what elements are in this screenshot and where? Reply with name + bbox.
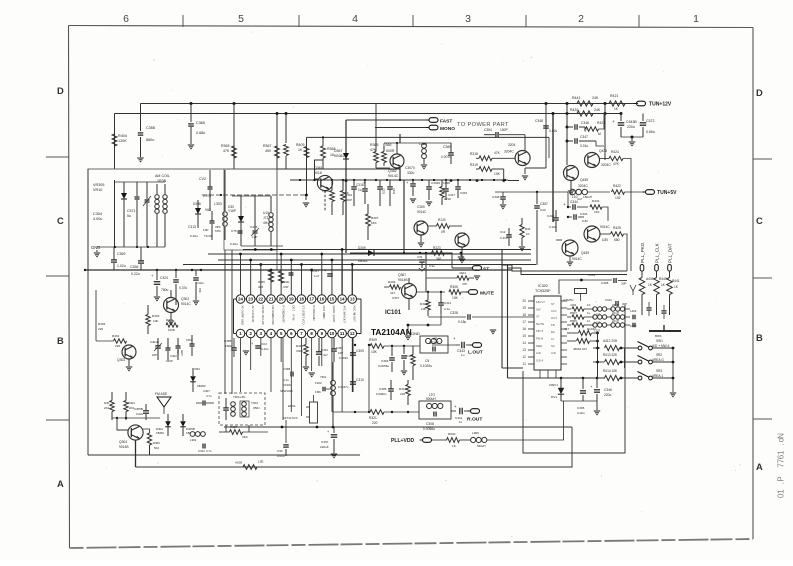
svg-text:C30: C30 [277,449,283,453]
svg-text:KB362: KB362 [156,431,164,435]
svg-text:P: P [777,476,786,481]
svg-text:DET: DET [292,306,296,312]
svg-text:IC101: IC101 [385,310,402,316]
svg-text:C328: C328 [450,311,458,315]
svg-text:0.8u: 0.8u [582,219,588,223]
svg-text:PLL+VDD: PLL+VDD [391,438,414,444]
svg-text:18: 18 [522,313,526,317]
svg-text:0.22u: 0.22u [131,272,140,276]
svg-text:3204C: 3204C [578,184,588,188]
svg-text:C328: C328 [601,281,609,285]
svg-text:Q303: Q303 [117,358,125,362]
svg-text:R34: R34 [525,227,531,231]
svg-text:0.68u: 0.68u [196,131,205,135]
svg-text:860u: 860u [146,138,154,142]
svg-text:9016: 9016 [314,171,322,175]
svg-text:R432: R432 [570,108,578,112]
svg-text:KB362: KB362 [334,154,345,158]
svg-text:RLY: RLY [176,350,179,355]
svg-text:Q439: Q439 [581,251,589,255]
svg-text:IC302: IC302 [538,284,548,288]
svg-text:FM ASE: FM ASE [155,392,168,396]
svg-text:9014C: 9014C [181,302,191,306]
svg-text:CC2: CC2 [261,342,267,346]
svg-text:C349: C349 [547,214,555,218]
svg-text:2K4: 2K4 [594,210,600,214]
svg-text:MED: MED [536,344,542,348]
svg-text:R424: R424 [611,150,619,154]
svg-text:N-OUT: N-OUT [342,315,346,324]
svg-text:9014B: 9014B [119,445,129,449]
svg-text:C358: C358 [146,126,155,130]
svg-text:U10: U10 [263,211,269,215]
svg-text:C307: C307 [203,389,210,393]
svg-text:13P: 13P [203,228,208,232]
svg-text:19: 19 [289,297,294,302]
svg-text:AREA 1: AREA 1 [652,374,663,378]
svg-text:AF Vcc: AF Vcc [251,306,255,315]
svg-text:R309: R309 [388,280,396,284]
svg-text:9014C: 9014C [388,174,399,178]
svg-text:R303: R303 [152,314,160,318]
svg-text:VR10: VR10 [93,188,102,192]
svg-text:C301B: C301B [150,340,159,344]
svg-text:SW: SW [536,307,541,311]
svg-text:A412 20H: A412 20H [603,339,618,343]
svg-text:NC: NC [551,344,555,348]
svg-text:1K: 1K [526,232,530,236]
svg-text:R305: R305 [450,285,458,289]
svg-text:R413 22K: R413 22K [603,353,618,357]
svg-text:Y16P: Y16P [228,209,237,213]
svg-text:11: 11 [523,362,527,366]
svg-text:R507: R507 [570,311,577,315]
svg-text:0.40u: 0.40u [230,242,238,246]
svg-text:TC9325F: TC9325F [535,289,551,293]
svg-text:GND: GND [411,331,420,336]
svg-text:BA: BA [551,330,555,334]
svg-text:21: 21 [269,297,274,302]
svg-text:C343B: C343B [626,120,637,124]
svg-text:C348: C348 [492,195,500,199]
svg-text:760u: 760u [161,288,169,292]
svg-text:L906: L906 [472,431,479,435]
svg-text:FB+V7: FB+V7 [536,300,545,304]
svg-text:7: 7 [777,463,786,468]
svg-text:C324: C324 [392,188,395,195]
svg-text:45V: 45V [265,149,272,153]
svg-text:R440: R440 [659,277,667,281]
svg-text:R425: R425 [613,226,621,230]
svg-text:FM6: FM6 [315,390,321,394]
svg-text:100P: 100P [500,128,509,132]
svg-text:C371: C371 [127,209,135,213]
svg-text:R442: R442 [592,199,600,203]
svg-text:12: 12 [350,331,355,336]
svg-text:0: 0 [777,493,786,498]
svg-text:AM LOC: AM LOC [261,315,265,325]
svg-text:13P: 13P [252,235,257,239]
svg-text:C346: C346 [604,388,612,392]
svg-text:C343: C343 [580,212,588,216]
svg-text:15: 15 [330,297,335,302]
svg-text:100R: 100R [168,328,175,332]
svg-text:AM COIL: AM COIL [155,174,170,178]
svg-text:R506: R506 [570,319,577,323]
svg-text:C356: C356 [130,265,138,269]
svg-text:V63: V63 [205,208,211,212]
svg-text:13: 13 [522,348,526,352]
svg-text:C372: C372 [646,119,654,123]
svg-text:C305: C305 [577,406,585,410]
svg-text:MUTE: MUTE [480,290,495,296]
svg-text:IF RCC: IF RCC [312,306,316,315]
svg-text:SW1: SW1 [656,339,663,343]
svg-text:+: + [251,342,253,346]
svg-text:A000: A000 [235,461,242,465]
svg-text:17: 17 [522,320,526,324]
svg-text:4324: 4324 [459,271,466,275]
svg-text:C347: C347 [580,135,588,139]
svg-text:14: 14 [522,341,526,345]
svg-text:C354: C354 [484,128,492,132]
svg-text:C304: C304 [93,212,102,216]
svg-text:Q304: Q304 [119,440,127,444]
svg-text:QUAD: QUAD [332,315,336,323]
svg-text:Q362: Q362 [388,169,397,173]
svg-text:4.7u: 4.7u [206,394,212,398]
svg-text:R365: R365 [370,143,378,147]
svg-text:C324: C324 [160,276,168,280]
svg-text:I-OUT: I-OUT [352,315,356,323]
svg-text:160P: 160P [225,344,232,348]
svg-text:C20: C20 [540,208,546,212]
svg-text:R465: R465 [258,280,265,284]
svg-text:GND: GND [91,245,100,250]
svg-text:150K: 150K [322,189,330,193]
svg-text:+: + [612,120,615,125]
svg-text:9014C: 9014C [600,225,610,229]
svg-text:VT: VT [536,315,540,319]
svg-text:17: 17 [309,297,314,302]
svg-text:360P: 360P [166,359,173,363]
svg-text:C9: C9 [425,359,429,363]
svg-text:360P: 360P [180,350,183,356]
svg-text:C369: C369 [117,252,125,256]
svg-text:ST LED: ST LED [302,306,306,315]
svg-text:PLL_DAT: PLL_DAT [668,243,673,263]
svg-text:FAST: FAST [440,118,452,124]
svg-text:R318: R318 [470,152,478,156]
svg-text:CLK: CLK [551,309,557,313]
svg-text:11: 11 [340,331,345,336]
svg-text:A/D + MW #: A/D + MW # [652,344,669,348]
svg-text:Q367: Q367 [398,273,406,277]
svg-text:TRILL3N: TRILL3N [233,395,245,399]
svg-text:7: 7 [777,458,786,463]
svg-text:47K: 47K [494,151,501,155]
svg-text:CF302: CF302 [283,383,292,387]
svg-text:TUN+12V: TUN+12V [649,102,672,108]
svg-text:C3070: C3070 [405,166,415,170]
svg-text:19: 19 [522,306,526,310]
svg-text:C310: C310 [345,193,352,197]
svg-text:C339: C339 [336,346,343,350]
svg-text:10K: 10K [371,350,378,354]
svg-text:+: + [324,269,326,273]
svg-text:AM OSC: AM OSC [271,315,275,326]
svg-text:R130: R130 [438,218,446,222]
svg-text:C317: C317 [448,193,455,197]
svg-text:1u: 1u [358,188,362,192]
svg-text:R441: R441 [672,279,680,283]
svg-text:220: 220 [372,421,378,425]
svg-text:0.0082u: 0.0082u [376,392,387,396]
svg-text:C310: C310 [356,378,364,382]
svg-text:TUN+5V: TUN+5V [657,190,677,196]
svg-text:C369: C369 [417,205,425,209]
svg-text:CV2: CV2 [199,177,206,181]
svg-text:16: 16 [522,327,526,331]
svg-text:4: 4 [352,14,358,25]
svg-text:LV: LV [551,337,554,341]
svg-text:R367: R367 [263,144,271,148]
svg-text:220: 220 [98,327,103,331]
svg-text:4u7: 4u7 [323,353,328,357]
svg-text:Q433: Q433 [599,149,607,153]
svg-text:SFT3L7A/0: SFT3L7A/0 [283,416,298,420]
svg-text:R422: R422 [613,184,621,188]
svg-text:47K: 47K [223,149,230,153]
svg-text:0R: 0R [441,230,446,234]
svg-text:MUTE: MUTE [536,322,544,326]
svg-text:R307: R307 [371,216,379,220]
svg-text:6: 6 [777,454,786,459]
svg-text:M: M [598,132,601,136]
svg-text:9014C: 9014C [417,210,427,214]
svg-text:24K: 24K [594,108,601,112]
svg-text:C6P: C6P [283,285,289,289]
svg-text:D306: D306 [193,202,201,206]
svg-text:EP01: EP01 [288,404,296,408]
svg-text:20: 20 [279,297,284,302]
svg-text:C305B: C305B [134,407,143,411]
svg-text:3R3: 3R3 [258,285,264,289]
svg-text:R301: R301 [112,334,120,338]
svg-text:0.07u: 0.07u [203,194,211,198]
svg-text:C307: C307 [392,296,399,300]
svg-text:1u: 1u [587,311,591,315]
svg-text:C302: C302 [170,354,177,358]
svg-text:F303: F303 [315,381,322,385]
svg-text:C312: C312 [198,449,205,453]
svg-text:3204: 3204 [508,143,516,147]
svg-text:D304: D304 [156,427,163,431]
svg-text:10K: 10K [452,296,459,300]
svg-text:0.02u: 0.02u [577,411,585,415]
svg-text:20uH: 20uH [612,319,619,323]
svg-text:A: A [57,479,64,489]
svg-text:L.OUT: L.OUT [468,350,483,356]
svg-text:0.42u: 0.42u [261,347,269,351]
svg-text:RF GND: RF GND [241,315,245,325]
svg-text:209V1: 209V1 [549,383,558,387]
svg-text:Q302: Q302 [181,297,189,301]
svg-text:10: 10 [330,331,335,336]
svg-text:R441: R441 [572,96,580,100]
svg-text:220P: 220P [345,198,352,202]
svg-text:C315: C315 [460,191,467,195]
svg-text:o: o [777,437,786,442]
svg-text:D367: D367 [334,149,342,153]
svg-text:0.22u: 0.22u [549,225,557,229]
svg-text:J8034 4K7: J8034 4K7 [573,347,588,351]
svg-text:0.37u: 0.37u [179,286,187,290]
svg-text:220: 220 [400,392,405,396]
svg-text:X501: X501 [588,273,595,277]
svg-text:3: 3 [465,14,471,25]
svg-text:5u: 5u [127,214,131,218]
svg-text:PLL_PKG: PLL_PKG [640,242,645,263]
svg-text:ST VCO: ST VCO [302,315,306,325]
svg-text:FB: FB [551,323,555,327]
svg-text:22: 22 [258,297,263,302]
svg-text:NC: NC [322,315,326,319]
svg-text:24: 24 [238,297,243,302]
svg-text:220: 220 [115,344,120,348]
svg-text:.: . [777,443,786,445]
svg-text:B: B [756,333,763,343]
svg-text:1: 1 [777,489,786,494]
svg-text:13: 13 [350,297,355,302]
svg-text:C357: C357 [540,202,548,206]
svg-text:FB IX: FB IX [536,329,543,333]
svg-text:S/D 4: S/D 4 [536,358,544,362]
svg-text:11: 11 [587,319,590,323]
svg-text:VR2: VR2 [194,367,200,371]
svg-text:12: 12 [522,355,526,359]
svg-text:C: C [756,216,763,226]
svg-text:C315: C315 [250,225,258,229]
svg-text:C101: C101 [605,298,612,302]
svg-text:0.82u: 0.82u [549,129,557,133]
svg-text:1K: 1K [298,148,303,152]
svg-text:R404: R404 [118,134,127,138]
svg-text:0.41u: 0.41u [500,236,508,240]
svg-text:P36: P36 [198,288,202,293]
svg-text:C311: C311 [444,301,451,305]
svg-text:C12: C12 [500,230,506,234]
svg-text:ST: ST [483,266,489,272]
svg-text:+: + [563,202,566,207]
svg-text:14: 14 [340,297,345,302]
svg-text:5K2: 5K2 [154,446,159,450]
svg-text:20P: 20P [152,353,157,357]
svg-text:10K: 10K [494,172,501,176]
svg-text:5: 5 [238,14,244,25]
svg-text:AM RF: AM RF [281,315,285,324]
svg-text:C346: C346 [581,121,589,125]
svg-text:0.0056u: 0.0056u [378,364,389,368]
svg-text:.: . [777,482,786,484]
svg-text:2K2: 2K2 [104,406,109,410]
svg-text:23: 23 [248,297,253,302]
svg-text:C3360: C3360 [431,181,440,185]
svg-text:0.0033: 0.0033 [339,356,348,360]
svg-text:4u7: 4u7 [577,197,582,201]
svg-text:6: 6 [123,14,129,25]
svg-text:0.18u: 0.18u [458,320,466,324]
svg-text:R304: R304 [128,401,135,405]
svg-text:0.56u: 0.56u [646,130,655,134]
svg-text:121K: 121K [444,197,452,201]
svg-text:PLL_CLK: PLL_CLK [655,242,660,263]
svg-text:C303: C303 [186,338,193,342]
svg-text:5K3: 5K3 [371,221,377,225]
svg-text:47K: 47K [613,162,620,166]
svg-text:220u: 220u [604,393,612,397]
svg-text:B: B [57,336,64,346]
svg-text:ST: ST [551,302,555,306]
svg-text:C348: C348 [535,119,543,123]
svg-text:680: 680 [614,238,620,242]
svg-text:1u7: 1u7 [314,274,319,278]
svg-text:1: 1 [777,450,786,455]
svg-text:DV1: DV1 [551,395,557,399]
svg-text:R319: R319 [470,163,478,167]
svg-text:D305B: D305B [186,427,195,431]
svg-text:220u: 220u [627,125,635,129]
svg-text:1u: 1u [461,353,465,357]
svg-text:10P: 10P [338,351,343,355]
svg-text:1.02u: 1.02u [117,264,126,268]
svg-text:R321: R321 [369,416,377,420]
svg-text:A/D: A/D [536,351,541,355]
svg-text:0.1u: 0.1u [283,378,289,382]
svg-text:4K7: 4K7 [564,327,570,331]
svg-text:GND: GND [312,315,316,321]
svg-text:20uH: 20uH [612,311,619,315]
svg-text:R940: R940 [448,432,456,436]
svg-text:C369: C369 [443,145,451,149]
svg-text:AGC IN: AGC IN [352,306,356,315]
svg-text:500R: 500R [386,149,395,153]
svg-text:T301: T301 [251,401,258,405]
svg-text:4.00u: 4.00u [93,217,102,221]
svg-text:0.0056u: 0.0056u [423,427,435,431]
svg-text:D: D [756,88,763,98]
svg-text:1402: 1402 [630,309,637,313]
svg-text:C317: C317 [312,269,320,273]
svg-text:IF GND: IF GND [281,306,285,315]
svg-text:+: + [327,430,329,434]
svg-text:U30: U30 [602,238,608,242]
svg-text:D: D [57,86,64,96]
svg-text:A: A [756,462,763,472]
svg-text:Q361: Q361 [314,166,323,170]
svg-text:15: 15 [522,334,526,338]
svg-text:J102: J102 [570,303,577,307]
svg-text:1: 1 [693,14,699,25]
svg-text:R365: R365 [221,144,229,148]
svg-text:R302: R302 [98,322,106,326]
svg-text:C31: C31 [417,255,423,259]
svg-text:4.5MHz: 4.5MHz [563,298,574,302]
svg-text:R307: R307 [166,318,173,322]
svg-text:R309: R309 [369,338,377,342]
svg-text:C337: C337 [321,440,329,444]
svg-text:0.02u: 0.02u [196,281,204,285]
